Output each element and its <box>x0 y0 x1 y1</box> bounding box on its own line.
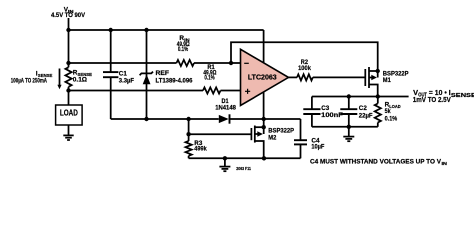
svg-text:M2: M2 <box>268 135 276 142</box>
svg-text:2063 F11: 2063 F11 <box>236 166 251 171</box>
svg-text:C2: C2 <box>359 105 367 112</box>
svg-text:5k: 5k <box>385 108 391 115</box>
svg-text:C3: C3 <box>321 105 329 112</box>
svg-text:0.1%: 0.1% <box>385 115 398 122</box>
svg-text:LTC2063: LTC2063 <box>248 73 277 82</box>
svg-text:10µF: 10µF <box>311 144 324 151</box>
svg-text:100k: 100k <box>298 65 311 72</box>
svg-text:0.1%: 0.1% <box>178 46 189 53</box>
svg-text:22µF: 22µF <box>359 112 373 119</box>
svg-text:C4 MUST WITHSTAND VOLTAGES UP: C4 MUST WITHSTAND VOLTAGES UP TO V <box>310 158 442 165</box>
svg-text:REF: REF <box>156 70 170 77</box>
svg-text:0.1%: 0.1% <box>204 75 215 82</box>
svg-text:IN: IN <box>442 161 447 166</box>
svg-text:LOAD: LOAD <box>60 108 78 117</box>
svg-text:3.3µF: 3.3µF <box>119 77 134 84</box>
svg-text:100nF: 100nF <box>321 112 343 119</box>
svg-text:LT1389-4.096: LT1389-4.096 <box>156 78 193 85</box>
svg-text:M1: M1 <box>383 77 391 84</box>
svg-text:1mV TO 2.5V: 1mV TO 2.5V <box>413 95 451 104</box>
svg-text:SENSE: SENSE <box>451 93 474 99</box>
svg-text:499k: 499k <box>194 146 207 153</box>
svg-text:LOAD: LOAD <box>389 104 401 109</box>
svg-text:BSP322P: BSP322P <box>268 127 294 134</box>
svg-text:0.1Ω: 0.1Ω <box>73 77 87 84</box>
svg-text:4.5V TO 90V: 4.5V TO 90V <box>51 12 86 19</box>
svg-text:1N4148: 1N4148 <box>215 104 236 111</box>
svg-text:100µA TO 250mA: 100µA TO 250mA <box>11 78 48 84</box>
